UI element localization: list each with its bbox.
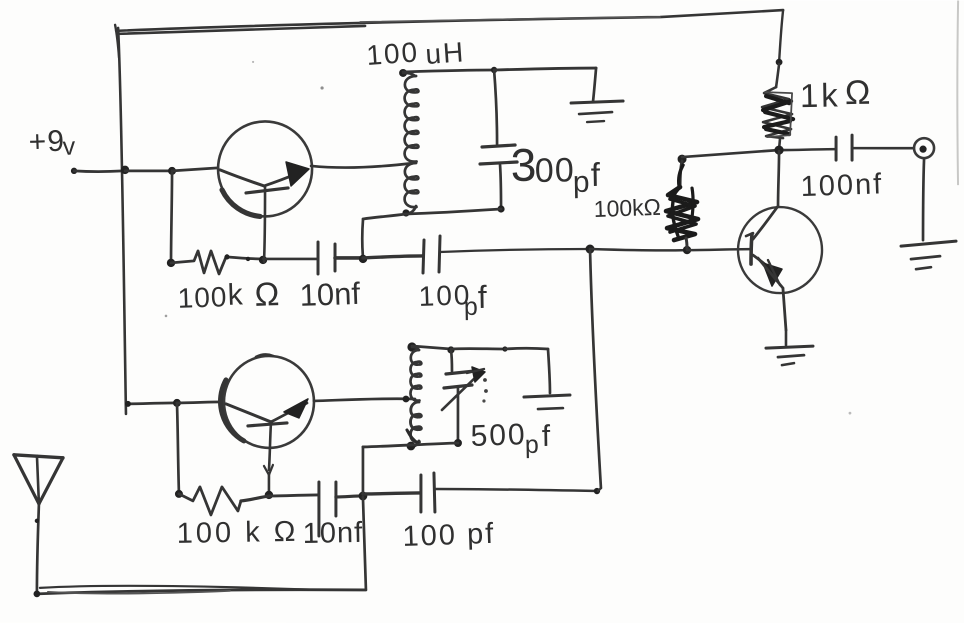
svg-text:100: 100 xyxy=(365,36,420,71)
svg-text:v: v xyxy=(62,132,76,160)
svg-text:p: p xyxy=(464,293,479,321)
svg-text:f: f xyxy=(591,156,602,193)
svg-text:100nf: 100nf xyxy=(800,168,884,203)
svg-text:3: 3 xyxy=(510,139,536,191)
svg-text:f: f xyxy=(478,279,489,315)
svg-text:p: p xyxy=(525,431,540,459)
svg-text:100 pf: 100 pf xyxy=(402,518,496,553)
svg-text:p: p xyxy=(573,166,591,199)
svg-text:00: 00 xyxy=(535,151,575,190)
svg-text:100: 100 xyxy=(177,281,228,314)
svg-text:10nf: 10nf xyxy=(302,517,363,550)
svg-text:10nf: 10nf xyxy=(299,276,361,313)
svg-text:k: k xyxy=(227,278,244,312)
svg-text:100 k Ω: 100 k Ω xyxy=(176,516,298,550)
svg-text:+9: +9 xyxy=(28,125,65,159)
svg-text:Ω: Ω xyxy=(845,74,872,112)
svg-text:1k: 1k xyxy=(800,76,841,114)
svg-text:500: 500 xyxy=(470,418,527,453)
svg-text:100kΩ: 100kΩ xyxy=(593,194,661,222)
svg-text:Ω: Ω xyxy=(254,275,280,313)
svg-text:uH: uH xyxy=(424,36,466,70)
svg-text:f: f xyxy=(542,420,552,453)
